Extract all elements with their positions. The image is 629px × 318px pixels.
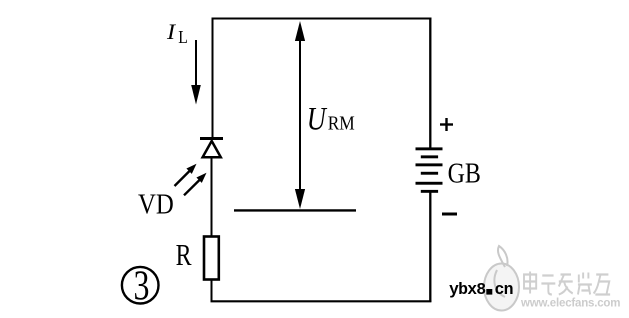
label GB xyxy=(448,157,481,188)
label VD xyxy=(138,188,174,220)
svg-text:R: R xyxy=(176,237,192,272)
battery GB plates (3 cells: long/short pairs) xyxy=(416,147,443,192)
watermark logo circle (elecfans) xyxy=(484,246,519,311)
light arrow B into photodiode xyxy=(184,173,207,196)
svg-text:3: 3 xyxy=(134,263,150,309)
wire left upper (top corner down to photodiode cathode) xyxy=(212,18,214,139)
label URM xyxy=(307,101,328,137)
node reference line for URM xyxy=(234,209,356,211)
photodiode VD cathode bar xyxy=(200,137,223,140)
resistor R body xyxy=(204,237,219,280)
circled figure number 3 xyxy=(122,263,159,309)
wire right upper (top corner to battery +) xyxy=(429,18,431,150)
wire left lower (resistor to bottom corner) xyxy=(211,279,213,302)
photodiode VD triangle (anode, pointing up) xyxy=(203,141,221,157)
light arrow A into photodiode xyxy=(175,164,197,186)
current arrow IL (downward) xyxy=(191,40,201,105)
svg-text:GB: GB xyxy=(448,157,481,188)
wire top (from left branch to right branch) xyxy=(212,18,432,20)
watermark chinese text 电子发烧友 xyxy=(524,272,610,295)
voltage arrow URM (double headed, vertical) xyxy=(295,21,305,209)
label − (battery negative) xyxy=(442,213,457,216)
svg-text:L: L xyxy=(178,27,188,47)
label + (battery positive) xyxy=(440,118,453,131)
svg-text:RM: RM xyxy=(328,113,355,135)
svg-text:U: U xyxy=(307,101,328,137)
wire bottom xyxy=(211,300,432,302)
wire left middle (photodiode to resistor) xyxy=(211,157,213,237)
watermark text ybx8.cn dot block xyxy=(486,289,492,295)
wire right lower (battery − to bottom corner) xyxy=(429,192,431,302)
svg-text:www.elecfans.com: www.elecfans.com xyxy=(520,298,620,310)
svg-text:I: I xyxy=(166,20,176,45)
svg-text:ybx8.cn: ybx8.cn xyxy=(449,280,513,299)
svg-text:VD: VD xyxy=(138,188,174,220)
label R xyxy=(176,237,192,272)
label IL (current) xyxy=(166,20,176,45)
